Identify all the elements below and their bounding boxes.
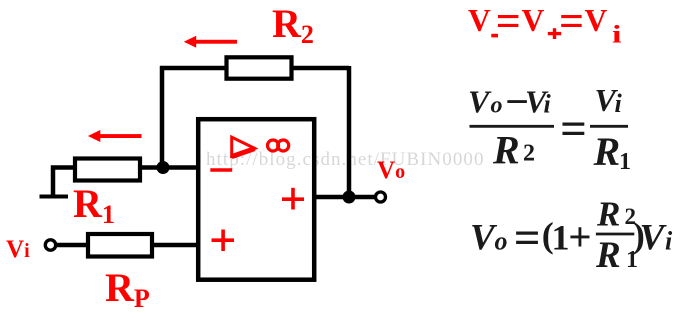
svg-text:=: = <box>514 212 541 264</box>
svg-text:i: i <box>665 226 673 255</box>
svg-text:V: V <box>522 3 545 38</box>
equation 3: Vo = (1 + R2/R1)Vi <box>470 195 673 276</box>
svg-text:i: i <box>544 90 552 119</box>
svg-text:=: = <box>496 0 521 46</box>
equation 1: V- = V+ = Vi <box>468 0 622 49</box>
wire: feedback left vertical <box>160 66 165 168</box>
svg-text:o: o <box>491 93 503 119</box>
svg-text:R: R <box>492 127 520 172</box>
svg-text:R: R <box>593 129 621 174</box>
ground <box>40 195 69 199</box>
wire: feedback right vertical <box>347 66 352 197</box>
arrow: R1 current (above R1) <box>88 130 142 142</box>
wire: R1 left to ground <box>53 168 75 198</box>
op-amp output plus label <box>282 188 304 210</box>
wire: feedback top <box>160 66 349 71</box>
wire: RP to non-inverting input <box>150 243 198 248</box>
svg-text:1: 1 <box>552 217 570 257</box>
svg-text:http://blog.csdn.net/FUBIN0000: http://blog.csdn.net/FUBIN0000 <box>206 149 485 170</box>
svg-text:=: = <box>559 0 584 46</box>
op-amp non-inverting input plus label <box>212 230 235 252</box>
op-amp U1 <box>198 119 314 280</box>
wire: Vi terminal to RP <box>55 243 90 248</box>
resistor R2 <box>227 57 292 78</box>
svg-text:R2: R2 <box>272 1 314 49</box>
resistor R1 <box>75 159 140 181</box>
resistor RP <box>88 234 152 257</box>
svg-text:=: = <box>560 103 587 155</box>
node: output junction <box>343 191 356 204</box>
svg-text:RP: RP <box>105 265 150 313</box>
svg-text:o: o <box>495 226 508 255</box>
terminal Vo <box>376 192 386 202</box>
arrow: feedback current (above R2) <box>184 36 237 48</box>
svg-text:i: i <box>615 89 623 118</box>
svg-text:R1: R1 <box>73 181 115 229</box>
terminal Vi <box>45 240 55 250</box>
svg-text:V: V <box>468 84 492 120</box>
svg-text:V: V <box>468 3 491 38</box>
svg-text:Vi: Vi <box>6 236 30 263</box>
node: inverting input junction <box>157 161 170 174</box>
op-amp ideal triangle symbol <box>232 137 255 156</box>
svg-text:+: + <box>568 214 591 260</box>
op-amp infinite gain symbol <box>268 140 289 151</box>
svg-text:V: V <box>585 3 608 38</box>
svg-text:i: i <box>612 22 622 49</box>
svg-text:R: R <box>595 235 621 276</box>
svg-text:2: 2 <box>523 141 535 167</box>
svg-text:1: 1 <box>619 149 631 175</box>
svg-text:R: R <box>596 195 620 234</box>
svg-text:V: V <box>640 217 668 258</box>
wire: output <box>316 195 376 200</box>
wire: inverting input <box>140 165 198 170</box>
op-amp inverting input minus label <box>210 168 232 172</box>
equation 2: (Vo-Vi)/R2 = Vi/R1 <box>468 80 631 176</box>
